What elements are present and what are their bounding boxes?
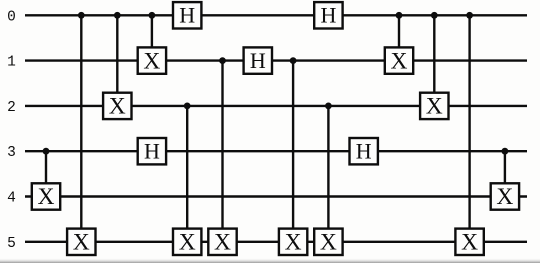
svg-text:3: 3 xyxy=(7,145,16,161)
svg-text:X: X xyxy=(38,184,55,210)
svg-text:1: 1 xyxy=(7,55,16,71)
svg-text:X: X xyxy=(109,94,126,120)
svg-text:0: 0 xyxy=(7,9,16,25)
svg-text:X: X xyxy=(179,230,196,256)
svg-text:X: X xyxy=(461,230,478,256)
svg-text:2: 2 xyxy=(7,100,16,116)
svg-text:X: X xyxy=(73,230,90,256)
svg-text:X: X xyxy=(391,48,408,74)
svg-text:5: 5 xyxy=(7,236,16,252)
svg-text:H: H xyxy=(250,48,266,73)
svg-text:X: X xyxy=(214,230,231,256)
svg-text:H: H xyxy=(179,3,195,28)
svg-text:X: X xyxy=(143,48,160,74)
svg-text:H: H xyxy=(144,139,160,164)
svg-text:X: X xyxy=(496,184,513,210)
svg-text:4: 4 xyxy=(7,191,16,207)
svg-text:X: X xyxy=(426,94,443,120)
svg-text:X: X xyxy=(285,230,302,256)
svg-text:H: H xyxy=(356,139,372,164)
svg-text:H: H xyxy=(320,3,336,28)
svg-text:X: X xyxy=(320,230,337,256)
